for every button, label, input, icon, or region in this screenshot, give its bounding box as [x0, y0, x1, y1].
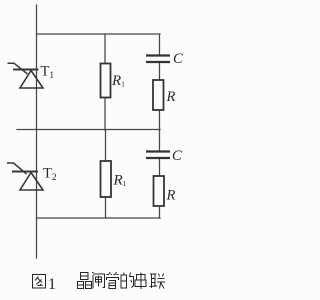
resistor R1 (lower): [101, 161, 112, 197]
wire: RC bottom branch lead C to R: [159, 158, 161, 176]
wire: middle bus: [17, 129, 160, 131]
wire: RC top branch lead bus to C: [159, 34, 161, 55]
wire: R1 bottom branch upper lead: [105, 130, 107, 161]
thyristor T2: [7, 163, 43, 190]
wire: left vertical main (top terminal to bottom terminal): [36, 5, 38, 258]
svg-text:1: 1: [48, 276, 56, 293]
resistor R1 (upper): [101, 64, 111, 98]
caption: 联: [150, 274, 166, 289]
wire: R1 bottom branch lower lead: [105, 197, 107, 218]
svg-text:C: C: [173, 51, 183, 67]
capacitor C (lower): [146, 152, 170, 159]
caption: 图: [33, 275, 46, 289]
wire: top bus: [37, 33, 161, 35]
wire: R1 top branch upper lead: [104, 34, 106, 64]
wire: RC bottom branch lead R to bottom bus: [159, 206, 161, 218]
wire: bottom bus: [37, 217, 161, 219]
caption: 晶: [78, 273, 92, 289]
caption: 的: [121, 273, 134, 289]
caption: 串: [135, 273, 146, 290]
svg-text:R: R: [166, 89, 176, 105]
resistor R (lower): [154, 176, 165, 206]
wire: R1 top branch lower lead: [104, 98, 106, 131]
wire: RC bottom branch lead bus to C: [159, 130, 161, 151]
caption: 管: [107, 272, 119, 289]
capacitor C (upper): [146, 56, 170, 63]
svg-text:R: R: [166, 188, 176, 204]
caption: 闸: [92, 273, 105, 289]
svg-text:C: C: [172, 148, 182, 164]
thyristor T1: [8, 63, 44, 88]
wire: RC top branch lead R to middle bus: [159, 110, 161, 130]
wire: RC top branch lead C to R: [159, 63, 161, 81]
resistor R (upper): [153, 80, 164, 110]
